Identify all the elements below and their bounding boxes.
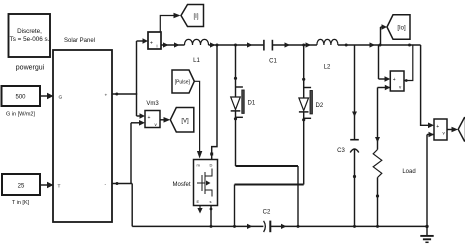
- current measurement Im1: [148, 32, 161, 49]
- capacitor C3 branch: [350, 45, 359, 228]
- wire top right corner to B6 +: [421, 45, 434, 128]
- signal wire Im1 to Goto I: [160, 13, 180, 32]
- svg-text:+: +: [148, 115, 151, 121]
- svg-text:C3: C3: [337, 148, 345, 154]
- Goto tag [V]: [170, 108, 194, 133]
- svg-text:powergui: powergui: [16, 65, 45, 72]
- constant T=25: [2, 174, 40, 195]
- wire Vm4 output to top wire: [404, 45, 413, 82]
- capacitor C2: [264, 221, 271, 233]
- svg-text:G: G: [59, 94, 63, 100]
- constant G=500: [2, 86, 41, 106]
- wire mosfet source to bus: [210, 206, 213, 228]
- From tag [Pulse]: [172, 70, 194, 93]
- top wire Im1 to L1: [161, 42, 185, 47]
- wire drain column: [210, 45, 217, 160]
- wire B6 output to Goto tag: [447, 127, 458, 133]
- voltage measurement B6: [434, 119, 447, 140]
- wire constant T to panel: [40, 182, 54, 188]
- node D2 junction: [302, 44, 305, 47]
- diode D1: [231, 45, 245, 166]
- wire rail to current measurement: [137, 38, 149, 44]
- svg-text:D1: D1: [248, 101, 256, 107]
- resistor Load: [373, 150, 382, 228]
- svg-text:G in [W/m2]: G in [W/m2]: [6, 112, 36, 118]
- Solar Panel block: [53, 50, 112, 222]
- voltage measurement Vm4: [390, 71, 404, 91]
- wire rail to Vm3 +: [137, 113, 146, 119]
- wire D2 to bus crossover: [233, 185, 304, 228]
- wire constant G to panel: [40, 93, 54, 99]
- wire to Goto Io: [381, 24, 388, 45]
- wire panel - output: [112, 182, 132, 226]
- svg-text:+: +: [393, 77, 396, 83]
- svg-text:500: 500: [15, 95, 26, 101]
- arrow into C2: [247, 224, 253, 229]
- Goto tag partial at right edge: [458, 118, 465, 141]
- wire output node to Vm4 +: [379, 45, 391, 82]
- inductor L1: [185, 39, 209, 45]
- svg-text:T: T: [58, 183, 61, 189]
- svg-text:i: i: [157, 44, 158, 49]
- mosfet m output dangling arrow: [197, 206, 202, 214]
- svg-text:Vm3: Vm3: [146, 101, 159, 107]
- svg-text:+: +: [436, 124, 439, 130]
- Goto tag [Io]: [387, 15, 410, 39]
- bottom bus right segment: [270, 224, 427, 229]
- svg-text:Load: Load: [402, 169, 415, 175]
- svg-text:[Io]: [Io]: [397, 26, 406, 32]
- svg-text:[I]: [I]: [193, 14, 198, 20]
- node drain junction: [216, 44, 219, 47]
- svg-text:Discrete,: Discrete,: [17, 28, 42, 35]
- mosfet block: [194, 160, 218, 206]
- node D1 junction: [234, 44, 237, 47]
- svg-text:s: s: [210, 199, 212, 204]
- voltage measurement Vm3: [145, 111, 160, 128]
- top wire C1 to L2: [272, 42, 317, 47]
- svg-text:+: +: [105, 94, 108, 99]
- svg-text:D2: D2: [316, 103, 324, 109]
- Goto tag [I]: [181, 5, 204, 27]
- svg-text:[Pulse]: [Pulse]: [175, 80, 191, 86]
- powergui block: [9, 14, 51, 57]
- svg-text:Ts = 5e-006 s.: Ts = 5e-006 s.: [10, 36, 50, 43]
- node - rail to Vm3: [131, 120, 145, 184]
- wire panel + output to rail: [112, 93, 137, 96]
- svg-text:Mosfet: Mosfet: [172, 182, 190, 188]
- wire Vm4 - to load top: [375, 85, 390, 150]
- wire D1 to bus crossover: [236, 166, 300, 228]
- wire Vm3 output to Goto V: [160, 117, 170, 123]
- inductor L2: [317, 39, 338, 45]
- svg-text:Solar Panel: Solar Panel: [64, 38, 95, 44]
- node + rail: [136, 41, 138, 116]
- svg-text:C2: C2: [263, 210, 271, 216]
- svg-text:+: +: [150, 41, 153, 47]
- wire B6 - to bus: [427, 132, 434, 227]
- ground: [420, 225, 433, 243]
- svg-text:D: D: [210, 163, 213, 168]
- top wire L1 to C1: [209, 42, 264, 47]
- top wire L2 to right corner: [338, 42, 421, 47]
- svg-text:L1: L1: [193, 58, 200, 64]
- svg-text:T in [K]: T in [K]: [12, 200, 30, 206]
- svg-text:25: 25: [18, 184, 25, 190]
- svg-text:L2: L2: [324, 65, 331, 71]
- svg-text:C1: C1: [269, 59, 277, 65]
- svg-text:[V]: [V]: [181, 118, 189, 124]
- capacitor C1: [264, 40, 273, 51]
- svg-text:E: E: [197, 199, 200, 204]
- bottom bus left segment: [132, 225, 263, 227]
- wire Pulse to gate: [194, 81, 202, 158]
- diode D2: [299, 45, 313, 185]
